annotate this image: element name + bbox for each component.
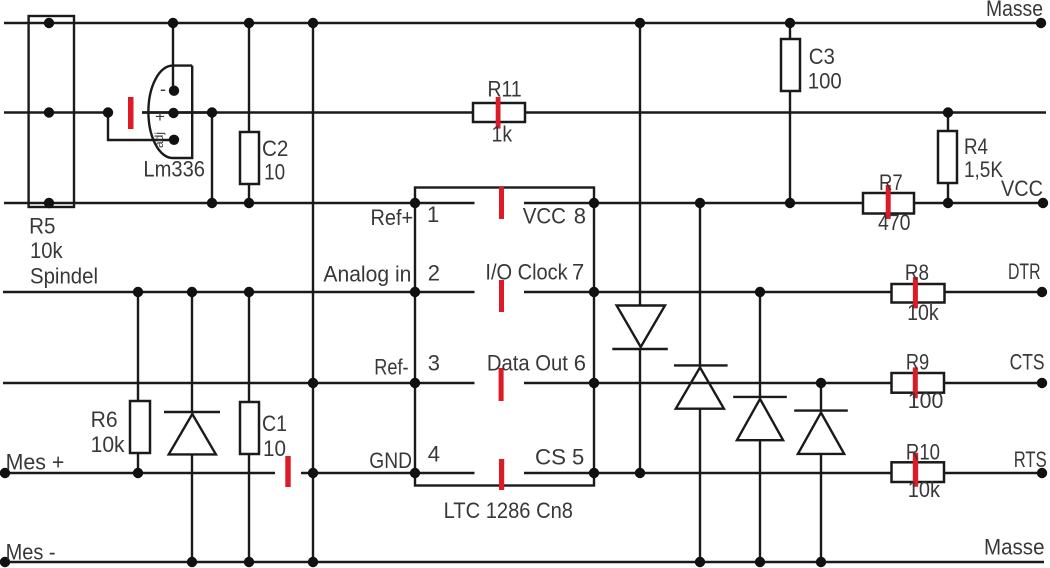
node C2 top xyxy=(244,18,254,28)
wire rail CTS right xyxy=(594,382,1042,384)
svg-text:R11: R11 xyxy=(488,77,522,102)
node LM336 top column xyxy=(168,18,178,28)
wire LM336 adj feedback xyxy=(108,113,174,141)
svg-text:VCC: VCC xyxy=(523,204,566,229)
pin 7 stub xyxy=(524,291,594,293)
wire rail Mes+ mid xyxy=(301,472,415,474)
node D4 bottom xyxy=(816,557,826,567)
wire rail Ref- left xyxy=(3,382,415,384)
svg-text:GND: GND xyxy=(369,448,412,473)
node D2 top xyxy=(695,198,705,208)
svg-text:C3: C3 xyxy=(809,44,835,69)
resistor R9 body xyxy=(892,373,945,393)
wire C3 column xyxy=(789,23,791,203)
wire LM336 minus pin column xyxy=(172,23,174,91)
svg-text:1k: 1k xyxy=(492,121,513,146)
node pin8 xyxy=(589,198,599,208)
svg-text:R4: R4 xyxy=(964,134,988,159)
svg-text:C1: C1 xyxy=(262,411,287,436)
wire diode D5 column lower xyxy=(191,455,193,562)
op-amp U1 LM336 body xyxy=(148,66,192,158)
svg-text:VCC: VCC xyxy=(1001,176,1043,201)
svg-text:adj: adj xyxy=(152,132,166,148)
svg-text:10: 10 xyxy=(263,436,286,461)
wire rail2 main segment xyxy=(142,111,1046,113)
node pin7 xyxy=(589,287,599,297)
svg-text:6: 6 xyxy=(574,351,586,376)
svg-text:Mes -: Mes - xyxy=(6,540,56,565)
svg-text:Analog in: Analog in xyxy=(323,262,411,287)
wire diode D3 column lower xyxy=(759,440,761,562)
node D1 top xyxy=(635,18,645,28)
wire diode D4 column lower xyxy=(820,454,822,562)
node R5 bottom xyxy=(44,198,54,208)
diode D4 xyxy=(794,411,848,454)
red mark R11 xyxy=(496,97,501,129)
node pin3 xyxy=(410,378,420,388)
pin 8 stub xyxy=(524,202,594,204)
svg-text:100: 100 xyxy=(908,388,944,413)
node pin6 xyxy=(589,378,599,388)
resistor R10 body xyxy=(892,462,945,482)
node LM336 minus pin xyxy=(169,86,179,96)
node C3 bottom xyxy=(785,198,795,208)
node D2 bottom xyxy=(695,557,705,567)
wire diode D1 column upper xyxy=(639,23,641,306)
node rail2 gap xyxy=(103,107,113,117)
node C3 top xyxy=(785,18,795,28)
svg-text:RTS: RTS xyxy=(1014,447,1047,472)
resistor R8 body xyxy=(892,284,945,303)
resistor R7 body xyxy=(863,193,914,214)
svg-text:I/O Clock: I/O Clock xyxy=(485,260,568,285)
node C2 bottom xyxy=(244,198,254,208)
node Mes- left end xyxy=(0,557,10,567)
svg-text:10: 10 xyxy=(264,159,285,184)
svg-text:R8: R8 xyxy=(905,260,929,285)
svg-text:LTC 1286 Cn8: LTC 1286 Cn8 xyxy=(444,498,573,523)
node x212 bottom xyxy=(207,198,217,208)
svg-text:C2: C2 xyxy=(262,136,288,161)
svg-text:Masse: Masse xyxy=(984,535,1045,560)
svg-text:R10: R10 xyxy=(906,440,940,465)
pin 3 stub xyxy=(415,382,475,384)
wire diode D4 column upper xyxy=(820,383,822,411)
svg-text:8: 8 xyxy=(574,204,586,229)
node x313 top xyxy=(308,18,318,28)
capacitor C2 body xyxy=(240,132,259,184)
node R6 bottom xyxy=(133,468,143,478)
wire R4 column xyxy=(947,113,949,204)
node R4 bottom xyxy=(943,198,953,208)
wire rail RTS right xyxy=(594,472,1042,474)
svg-text:CS: CS xyxy=(535,445,566,470)
red mark R10 xyxy=(913,453,918,487)
wire C1 column xyxy=(248,292,250,562)
svg-text:-: - xyxy=(160,79,166,99)
diode D5 xyxy=(164,412,220,454)
node VCC right end xyxy=(1038,198,1048,208)
wire LM336 plus pin rail through body xyxy=(142,111,212,113)
node x212 top xyxy=(207,107,217,117)
node RTS end xyxy=(1037,468,1047,478)
svg-text:3: 3 xyxy=(428,351,440,376)
diode D3 xyxy=(733,397,787,440)
wire column x313 xyxy=(312,23,314,562)
node LM336 adj pin xyxy=(169,135,179,145)
svg-text:5: 5 xyxy=(572,445,584,470)
svg-text:470: 470 xyxy=(878,210,911,235)
wire column x212 xyxy=(211,113,213,204)
svg-text:Ref-: Ref- xyxy=(374,355,408,380)
svg-text:Masse: Masse xyxy=(986,0,1043,21)
red mark IC pin2 xyxy=(499,280,504,312)
red mark IC pin3 xyxy=(499,368,504,401)
red mark IC pin1 xyxy=(499,187,504,219)
node D4 top xyxy=(816,378,826,388)
node x313 ref- xyxy=(308,378,318,388)
node C1 bottom xyxy=(244,557,254,567)
node pin4 xyxy=(410,468,420,478)
svg-text:Spindel: Spindel xyxy=(30,264,98,289)
wire rail VCC xyxy=(4,202,1043,204)
svg-text:2: 2 xyxy=(428,260,440,285)
capacitor C1 body xyxy=(240,402,259,454)
svg-text:R5: R5 xyxy=(29,214,55,239)
wire rail Mes+ left xyxy=(5,472,275,474)
node pin5 xyxy=(589,468,599,478)
node R5 wiper xyxy=(44,107,54,117)
potentiometer R5 body xyxy=(29,16,74,207)
resistor R6 body xyxy=(130,401,150,453)
red mark LM336 xyxy=(128,97,134,129)
node D3 top xyxy=(755,287,765,297)
diode D2 xyxy=(674,365,728,408)
node C1 top xyxy=(244,287,254,297)
node Mes+ left end xyxy=(0,468,10,478)
node DTR end xyxy=(1037,287,1047,297)
svg-text:7: 7 xyxy=(572,260,584,285)
red mark Mes+ xyxy=(285,456,290,487)
node pin2 xyxy=(410,287,420,297)
svg-text:Mes +: Mes + xyxy=(6,449,65,474)
pin 5 stub xyxy=(524,472,594,474)
node R4 top xyxy=(943,107,953,117)
svg-text:1,5K: 1,5K xyxy=(964,157,1003,182)
red mark IC pin4 xyxy=(499,459,504,490)
node D1 bottom xyxy=(635,468,645,478)
wire diode D2 column upper xyxy=(699,203,701,365)
pin 1 stub xyxy=(415,202,475,204)
svg-text:4: 4 xyxy=(428,442,440,467)
pin 4 stub xyxy=(415,472,475,474)
svg-text:10k: 10k xyxy=(91,432,126,457)
node D5 top xyxy=(187,287,197,297)
svg-text:1: 1 xyxy=(427,202,439,227)
node x313 bottom xyxy=(308,557,318,567)
node R5 top xyxy=(44,18,54,28)
diode D1 xyxy=(612,306,668,350)
svg-text:10k: 10k xyxy=(30,238,64,263)
node D3 bottom xyxy=(755,557,765,567)
wire diode D2 column lower xyxy=(699,409,701,562)
node Masse right end xyxy=(1036,18,1046,28)
wire rail Masse top xyxy=(4,22,1041,24)
wire rail Analog-in left xyxy=(3,291,415,293)
node x313 mes+ xyxy=(308,468,318,478)
node R6 top xyxy=(133,287,143,297)
svg-text:10k: 10k xyxy=(907,300,939,325)
node pin1 xyxy=(410,198,420,208)
resistor R4 body xyxy=(938,131,957,183)
resistor R11 body xyxy=(473,103,525,122)
red mark R8 xyxy=(913,277,918,308)
wire diode D5 column upper xyxy=(191,292,193,412)
red mark R9 xyxy=(913,367,918,398)
wire rail DTR right xyxy=(594,291,1042,293)
svg-text:CTS: CTS xyxy=(1010,350,1045,375)
pin 2 stub xyxy=(415,291,475,293)
wire diode D3 column upper xyxy=(759,292,761,397)
wire diode D1 column lower xyxy=(639,349,641,473)
pin 6 stub xyxy=(524,382,594,384)
svg-text:100: 100 xyxy=(808,68,842,93)
IC U2 LTC1286 body xyxy=(415,188,594,486)
svg-text:+: + xyxy=(155,107,165,126)
red mark R7 xyxy=(886,185,891,219)
wire C2 column xyxy=(248,23,250,203)
svg-text:R6: R6 xyxy=(91,407,118,432)
node LM336 plus pin xyxy=(168,108,178,118)
svg-text:10k: 10k xyxy=(908,477,941,502)
wire rail Masse bottom xyxy=(4,561,1044,563)
svg-text:Lm336: Lm336 xyxy=(143,157,205,182)
wire R6 column xyxy=(137,292,139,473)
svg-text:Data Out: Data Out xyxy=(487,351,568,376)
svg-text:Ref+: Ref+ xyxy=(371,205,414,230)
capacitor C3 body xyxy=(781,39,800,91)
svg-text:R9: R9 xyxy=(906,350,929,375)
node CTS end xyxy=(1037,378,1047,388)
node D5 bottom xyxy=(187,557,197,567)
wire rail2 left segment xyxy=(4,111,108,113)
svg-text:R7: R7 xyxy=(879,170,903,195)
svg-text:DTR: DTR xyxy=(1008,259,1041,284)
